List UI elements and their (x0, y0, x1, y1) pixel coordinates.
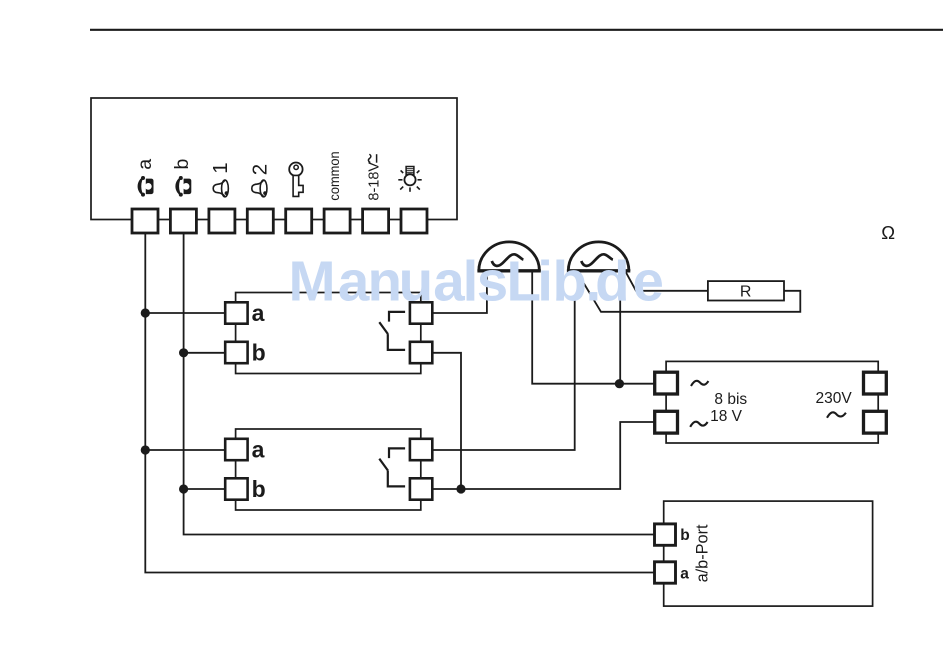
bell E1 (477, 242, 540, 271)
node: junction a-line / relay U2 a (141, 445, 150, 454)
wire: relay U2 contact bottom to transformer T1 lower terminal (432, 422, 655, 489)
svg-text:b: b (680, 527, 689, 544)
icon telephone a (rotated) (138, 176, 154, 197)
relay U2 contact pin top (410, 439, 432, 460)
relay U1 contact pin top (410, 302, 432, 323)
wire: node a to relay U2 terminal a (145, 449, 225, 451)
transformer T1 primary pin 2 (864, 411, 887, 433)
terminal block box (telephone system) (91, 98, 457, 220)
node: junction b-line / relay U1 b (179, 348, 188, 357)
wire: bell E2 left lead diagonal to resistor loop (577, 272, 800, 312)
svg-text:230V: 230V (816, 390, 853, 407)
terminal bell 1 (209, 209, 235, 233)
transformer T1 secondary pin 1 (655, 372, 678, 394)
svg-text:1: 1 (209, 162, 232, 173)
relay U1 switch contact (379, 312, 405, 350)
transformer T1 AC symbol secondary top (691, 381, 708, 386)
wire: relay U1 contact top to bell E1 left lead (432, 271, 487, 313)
relay U2 pin a (225, 439, 247, 460)
relay U1 (225, 293, 432, 374)
svg-text:Ω: Ω (881, 222, 895, 243)
terminal bell 2 (247, 209, 273, 233)
terminal b (170, 209, 196, 233)
wire: bell E2 right lead down to junction (619, 271, 621, 384)
terminal lamp (401, 209, 427, 233)
wire: bell E1 right lead to transformer T1 upper terminal (532, 271, 655, 384)
transformer T1 (655, 361, 887, 443)
relay U2 contact pin bottom (410, 478, 432, 499)
transformer T1 AC symbol secondary bottom (690, 422, 707, 427)
terminal common (324, 209, 350, 233)
svg-text:R: R (740, 284, 752, 301)
relay U1 contact pin bottom (410, 342, 432, 363)
svg-text:8 bis: 8 bis (714, 391, 747, 408)
svg-text:a: a (680, 566, 689, 583)
AC/DC tilde of 8-18V label (368, 154, 370, 162)
svg-text:b: b (252, 339, 266, 365)
a/b-Port pin b (655, 524, 676, 545)
svg-text:2: 2 (249, 164, 272, 175)
relay U2 pin b (225, 478, 247, 499)
node: junction a-line / relay U1 a (141, 308, 150, 317)
icon bell 2 (rotated) (252, 180, 267, 197)
relay U2 switch contact (379, 448, 405, 486)
icon lamp (398, 167, 421, 192)
relay U2 (225, 429, 432, 510)
wire: bell E2 right lead diagonal to resistor R left (626, 272, 708, 291)
svg-text:18 V: 18 V (710, 408, 743, 425)
node: junction relay contact returns (456, 484, 465, 493)
bell E2 (567, 242, 630, 271)
wire: node b to relay U2 terminal b (184, 488, 226, 490)
wire: node b to relay U1 terminal b (184, 352, 226, 354)
resistor R (708, 281, 784, 300)
transformer T1 secondary pin 2 (655, 411, 678, 433)
icon telephone b (rotated) (175, 176, 191, 197)
terminal squares of terminal block (132, 209, 427, 233)
top rule (90, 29, 943, 31)
svg-text:a: a (252, 437, 265, 463)
svg-text:a/b-Port: a/b-Port (693, 524, 711, 582)
wire: relay U2 contact top to bell E2 left lead (431, 298, 575, 450)
svg-text:8-18V: 8-18V (366, 162, 382, 201)
svg-text:ManualsLib.de: ManualsLib.de (289, 250, 664, 313)
svg-text:b: b (171, 159, 193, 170)
a/b-Port pin a (655, 562, 676, 583)
svg-text:common: common (326, 151, 342, 200)
junction dots (141, 308, 624, 493)
a/b-Port box (655, 501, 873, 606)
line of AC/DC symbol (376, 154, 378, 163)
wire: relay U1 contact bottom down to junction (432, 353, 461, 489)
transformer T1 AC symbol primary (827, 412, 846, 418)
terminal 8-18V (363, 209, 389, 233)
svg-text:a: a (252, 300, 265, 326)
relay U1 pin a (225, 302, 247, 323)
relay U1 pin b (225, 342, 247, 363)
svg-text:b: b (252, 476, 266, 502)
svg-text:a: a (134, 159, 156, 170)
node: junction b-line / relay U2 b (179, 484, 188, 493)
wire: a-line vertical from terminal a down and right to a/b-Port a (145, 233, 654, 573)
terminal a (132, 209, 158, 233)
node: junction bell leads to transformer (615, 379, 624, 388)
wire: node a to relay U1 terminal a (145, 312, 225, 314)
icon key (289, 163, 303, 197)
icon bell 1 (rotated) (213, 180, 228, 197)
transformer T1 primary pin 1 (864, 372, 887, 394)
wire: b-line vertical from terminal b down and right to a/b-Port b (184, 233, 655, 535)
terminal key (286, 209, 312, 233)
